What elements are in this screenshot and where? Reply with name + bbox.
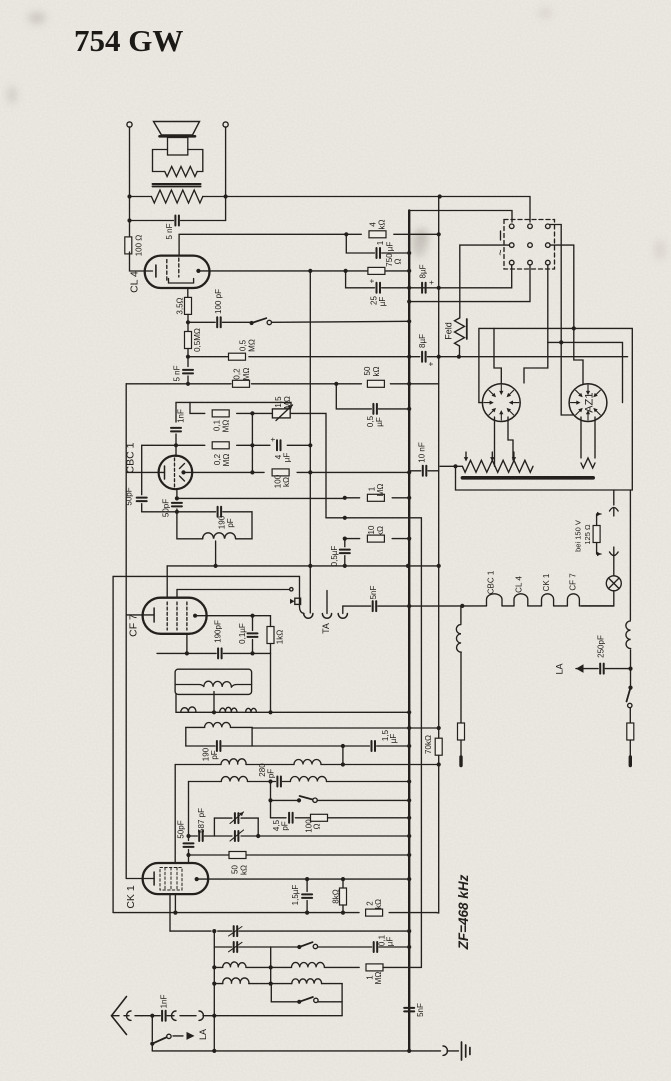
- tube CL4 cathode: [155, 265, 157, 277]
- wire: 100pF line y322.3: [188, 321, 215, 323]
- node: y746 link: [341, 744, 345, 748]
- node: y301.6 at bus: [407, 300, 411, 304]
- coil RF choke left: [460, 606, 462, 624]
- node: CL4 anode 25uF branch: [344, 269, 348, 273]
- barretter arrows: [491, 452, 493, 459]
- coil osc 2: [292, 962, 325, 967]
- wire: osc line y931.1: [170, 930, 211, 932]
- tube CBC1 diode plates: [180, 464, 185, 469]
- capacitor 5nF (top): [175, 216, 179, 226]
- wire: IF box left edge to row: [175, 694, 177, 712]
- wire: lamp to heater chain corner: [582, 591, 614, 606]
- capacitor 5nF (cathode): [183, 370, 193, 374]
- wire: coil line y983.6: [214, 983, 223, 985]
- LA switch (antenna): [151, 1016, 153, 1041]
- wire: CK1 bottom leads: [174, 894, 176, 913]
- coil ant 1: [223, 978, 249, 984]
- wire: after 1nF, link arcs: [167, 1015, 174, 1017]
- trimmer cap 2: [235, 831, 239, 841]
- svg-text:8µF: 8µF: [418, 264, 427, 278]
- svg-text:3,5Ω: 3,5Ω: [175, 297, 184, 314]
- wire: long B+ line y196.5 from speaker to mains plug: [130, 196, 152, 198]
- wire: 1MOhm right lead to TA column: [383, 966, 421, 968]
- wire: 0,5uF drop from y383.8: [336, 384, 371, 409]
- svg-text:bei 150 V: bei 150 V: [574, 520, 583, 552]
- capacitor (CK1 grid, vertical): [184, 843, 194, 847]
- node: y836 at bus: [407, 834, 411, 838]
- node: y781.5 at bus: [407, 779, 411, 783]
- tube AZ1 socket: [569, 384, 607, 422]
- node: y287.8 at bus2: [437, 286, 441, 290]
- resistor 50 kOhm (horizontal, y383.8): [367, 380, 384, 387]
- wire: 190pF line y653.4: [157, 652, 216, 654]
- speaker gap bar: [160, 135, 196, 138]
- node: y912.6 CK1 lead: [173, 911, 177, 915]
- wire: coil line y764.5: [175, 764, 221, 766]
- wire: line y565.9: [167, 565, 439, 567]
- svg-text:+: +: [426, 361, 435, 366]
- switch (antenna band): [297, 1000, 301, 1004]
- resistor 2kOhm: [366, 909, 383, 916]
- resistor 100 kOhm (anode load): [272, 469, 289, 476]
- wire: grid cap to tube: [188, 850, 190, 864]
- svg-text:754 GW: 754 GW: [74, 23, 183, 58]
- svg-text:CL 4: CL 4: [129, 271, 141, 293]
- capacitor 1,5uF (CK1): [302, 894, 312, 898]
- wire: 4 kOhm line y234.3 with drop to CL4 grid: [179, 234, 361, 255]
- trimmer cap (osc padder bottom): [234, 942, 238, 952]
- svg-text:0,1: 0,1: [212, 419, 221, 431]
- svg-text:MΩ: MΩ: [221, 420, 230, 433]
- ground symbol: [461, 1042, 463, 1060]
- tube CL4 grid1 (dashed): [166, 260, 168, 282]
- barretter heater zigzag: [462, 460, 533, 472]
- capacitor 4uF electrolytic: [277, 440, 281, 450]
- node: y565.9 coil tap: [214, 564, 218, 568]
- resistor 1 MOhm (osc): [366, 964, 383, 971]
- output transformer primary winding (zigzag): [165, 167, 197, 177]
- wire: box line y576.4 into TA hook1: [113, 576, 304, 613]
- svg-text:kΩ: kΩ: [282, 477, 291, 487]
- coil row y764.5 right: [294, 760, 321, 765]
- node: y912.6 8k: [341, 911, 345, 915]
- dial lamp: [606, 576, 621, 591]
- coil osc 1: [223, 962, 246, 967]
- svg-text:CL 4: CL 4: [514, 576, 523, 593]
- resistor 750 Ohm: [368, 267, 385, 274]
- wire: 10 kOhm line y538.6: [345, 538, 360, 540]
- node: y983.6 switch column: [269, 982, 273, 986]
- wire: right rail from box corner: [629, 490, 631, 620]
- wire: x270.5 drop to switch/4,5pF: [270, 782, 272, 818]
- svg-text:8µF: 8µF: [418, 334, 427, 348]
- svg-text:50pF: 50pF: [161, 499, 170, 517]
- node: CBC1 anode at screen bus: [308, 470, 312, 474]
- node: CL4 anode at HT bus: [407, 269, 411, 273]
- node: y565.9 0,5uF: [343, 564, 347, 568]
- svg-text:5nF: 5nF: [416, 1003, 425, 1017]
- node: CK1 anode at bus: [407, 877, 411, 881]
- tube CL4 anode bracket: [169, 279, 194, 284]
- node: y931.1 left column: [212, 929, 216, 933]
- svg-text:LA: LA: [555, 663, 565, 674]
- node: 50k junction: [186, 853, 190, 857]
- LA arrow (antenna): [173, 1035, 183, 1037]
- node: y983.6 left column: [212, 982, 216, 986]
- node: grid rail junction: [186, 834, 190, 838]
- wire: x573.8 to AZ1 top: [574, 328, 583, 384]
- wire: antenna line to x342.1: [214, 1015, 342, 1017]
- wire: hook3 lead to 5nF: [343, 606, 371, 613]
- wire: 190pF line y511.8: [142, 511, 216, 513]
- svg-text:0,1µF: 0,1µF: [238, 623, 247, 644]
- svg-text:CBC 1: CBC 1: [486, 570, 495, 594]
- lamp chain from box bottom: [613, 490, 615, 505]
- trimmer cap 1: [235, 813, 239, 823]
- switch (osc y947): [297, 945, 301, 949]
- potentiometer 1,5 MOhm: [272, 409, 290, 418]
- node: y356.7 at bus2: [437, 355, 441, 359]
- tube CK1 anode dot: [195, 877, 199, 881]
- wire: lamp lead: [613, 556, 615, 576]
- wire: line y356.7 to bus and Feld: [188, 356, 228, 358]
- node: CK1 anode 1,5uF: [305, 877, 309, 881]
- node: y565.9 bus2: [437, 564, 441, 568]
- wire: grid lead up: [175, 445, 177, 456]
- node: y497.8 at bus: [407, 496, 411, 500]
- node: switch line at bus: [407, 319, 411, 323]
- tube CF7 anode dot: [193, 614, 197, 618]
- svg-text:Ω: Ω: [312, 823, 321, 829]
- node: heater node at bus: [407, 604, 411, 608]
- node: grid line at screen bus: [308, 443, 312, 447]
- socket left pins: [484, 385, 519, 420]
- svg-text:587 pF: 587 pF: [197, 808, 206, 833]
- padder box top line y818.1: [214, 817, 232, 819]
- svg-text:5nF: 5nF: [369, 586, 378, 600]
- coil row y781.5 left: [221, 776, 247, 781]
- capacitor 0,5uF: [373, 404, 377, 414]
- wire: cathode to main AF line: [187, 376, 189, 384]
- node: 100pF junction: [186, 320, 190, 324]
- wire: CF7 grid2 lead up: [176, 590, 178, 598]
- resistor 0,2 MOhm (horizontal, y383.8): [233, 380, 250, 387]
- wire: grid line left stub: [142, 444, 176, 446]
- svg-text:CBC 1: CBC 1: [125, 442, 137, 473]
- wire: box bottom edge: [186, 745, 215, 747]
- tube CL4 anode dot: [196, 269, 200, 273]
- tube CK1 cathode: [153, 872, 155, 885]
- node: 250pF node: [628, 667, 632, 671]
- node: y383.8 at bus: [407, 382, 411, 386]
- wire: bottom earth line y1050.9: [152, 1050, 440, 1052]
- node: 280pF junction: [268, 779, 272, 783]
- svg-text:1nF: 1nF: [159, 995, 168, 1009]
- svg-text:50pF: 50pF: [124, 487, 133, 505]
- wire: pot right to AF takeoff: [290, 413, 326, 517]
- wire: CF7 bottom lead: [186, 634, 188, 654]
- earth link arc: [443, 1046, 448, 1055]
- svg-text:kΩ: kΩ: [374, 899, 383, 909]
- tube CL4 envelope: [145, 256, 210, 288]
- svg-text:100 pF: 100 pF: [214, 289, 223, 314]
- link hook top: [610, 508, 619, 512]
- wire: socket left bottom pins to barretter: [494, 417, 496, 466]
- coil L1 (CBC1 cathode coil): [177, 512, 252, 539]
- switch S1 lever: [252, 318, 267, 323]
- svg-text:kΩ: kΩ: [372, 366, 381, 376]
- wire: 1kOhm column down to detector row: [270, 653, 272, 712]
- node: y912.6 1,5uF: [305, 911, 309, 915]
- mains plug dashed box: [504, 220, 555, 270]
- wire: volume pot wiper line y402.4: [176, 402, 291, 422]
- tube CF7 envelope: [143, 598, 207, 634]
- tube CBC1 grid (dashed): [174, 458, 176, 487]
- svg-text:70kΩ: 70kΩ: [424, 735, 433, 754]
- node: y565.9 screen bus: [308, 564, 312, 568]
- node: anode dots: [250, 614, 254, 618]
- resistor 50 kOhm: [229, 852, 246, 859]
- node: y538.6 at bus: [407, 537, 411, 541]
- node: earth line left column: [212, 1049, 216, 1053]
- wire: coil tap to detector row: [213, 692, 215, 713]
- svg-text:+: +: [427, 280, 436, 285]
- node: earth line at bus: [407, 1049, 411, 1053]
- node: grid line AVC column: [250, 443, 254, 447]
- bus: second bus x438.7: [438, 197, 440, 739]
- wire: 100 Ohm line y817.8: [271, 817, 287, 819]
- coil row y781.5 right (4 loops): [290, 776, 326, 781]
- svg-text:pF: pF: [210, 750, 219, 759]
- rectifier socket (left): [482, 384, 520, 422]
- svg-text:1: 1: [376, 240, 385, 245]
- node: CL4 anode at screen bus: [308, 269, 312, 273]
- resistor 100 Ohm (osc): [311, 814, 328, 821]
- wire: socket left top feed: [494, 328, 501, 384]
- wire: AVC column x252.4: [251, 413, 253, 471]
- node: y947 at bus: [407, 945, 411, 949]
- bus: screen bus x310.3: [309, 271, 311, 613]
- coil L2 inside box: [175, 685, 204, 687]
- power unit box: [456, 328, 633, 490]
- resistor 0,5 MOhm (vertical): [185, 332, 192, 349]
- wire: left drop end: [460, 740, 462, 757]
- capacitor 5nF (TA): [373, 601, 377, 611]
- mains plug tick mark: [500, 231, 502, 240]
- wire: vertical x214.3 (947-1015.6): [213, 931, 215, 1016]
- svg-text:~: ~: [495, 249, 507, 255]
- node: y287.8 at HT bus: [407, 286, 411, 290]
- tube CBC1 envelope: [159, 456, 193, 490]
- heater CK1: [542, 594, 554, 606]
- svg-text:Feld: Feld: [444, 322, 454, 340]
- wire: 50pF to rail: [189, 835, 198, 837]
- wire: plug bottom-middle down to bus line y301.6: [409, 265, 530, 302]
- wire: CF7 anode line: [195, 615, 270, 617]
- svg-text:pF: pF: [266, 769, 275, 778]
- svg-text:10: 10: [367, 525, 376, 534]
- capacitor 4,5pF: [289, 813, 293, 823]
- svg-text:pF: pF: [280, 821, 289, 830]
- svg-text:4: 4: [369, 222, 378, 227]
- heater CF7: [567, 594, 579, 606]
- svg-text:50: 50: [363, 366, 372, 375]
- paper smudges: [7, 8, 666, 260]
- wire: left speaker lead down: [129, 127, 131, 239]
- wire: antenna lead with link: [112, 1015, 120, 1017]
- wire: coil tap down: [215, 541, 217, 566]
- node: junction y196.5 at bus2: [438, 194, 442, 198]
- svg-text:ZF=468 kHz: ZF=468 kHz: [456, 874, 471, 950]
- svg-text:MΩ: MΩ: [374, 972, 383, 985]
- svg-text:CK 1: CK 1: [125, 885, 137, 909]
- svg-text:0,5MΩ: 0,5MΩ: [193, 328, 202, 352]
- tube CK1 envelope: [143, 863, 209, 894]
- svg-text:250pF: 250pF: [596, 635, 605, 658]
- svg-text:µF: µF: [389, 734, 398, 744]
- node: AF line dot: [343, 516, 347, 520]
- wire: y836 line: [214, 835, 232, 837]
- wire: plug mid-left to Feld: [460, 245, 510, 318]
- wire: coil line y967.4: [214, 966, 222, 968]
- antenna symbol: [112, 997, 127, 1035]
- capacitor 100pF: [217, 317, 221, 327]
- wire: right speaker lead down to 5nF line: [225, 127, 227, 220]
- node: y383.8 0,5uF branch: [334, 382, 338, 386]
- wire: left rail x126.2 (CBC1/CF7/CK1 cathodes): [125, 384, 127, 879]
- wire: 8kOhm leads: [342, 879, 344, 888]
- resistor 125 Ohm plug-in: [593, 526, 600, 543]
- node: AF line junction: [186, 382, 190, 386]
- svg-text:TA: TA: [321, 623, 331, 634]
- node: 0,5uF at bus: [407, 407, 411, 411]
- node: y800.4 at bus: [407, 798, 411, 802]
- AZ1 filament zigzag: [581, 458, 595, 468]
- svg-text:5 nF: 5 nF: [165, 223, 174, 239]
- coil ant 2: [292, 979, 322, 984]
- oscillator box top y727.4 with coil: [186, 726, 205, 728]
- speaker terminal right: [223, 122, 228, 127]
- wire: plug mid-right jumper: [550, 245, 574, 328]
- wire: CL4 anode line y270.9 to 750 Ohm: [198, 270, 368, 272]
- wire: x214.3 to bottom: [213, 1016, 215, 1051]
- TA jack hooks: [304, 614, 313, 619]
- wire: AF line y517.8 down to oscillator: [326, 518, 421, 968]
- resistor 0,2 MOhm (grid leak): [212, 442, 229, 449]
- wire: cathode chain to 5nF: [187, 349, 189, 367]
- capacitor 8uF electrolytic (y287.8): [422, 283, 426, 293]
- wire: Feld to line y356.7: [459, 346, 461, 357]
- wire: rail x188.5 (row 781.5 to grid): [188, 782, 190, 841]
- capacitor 0,1uF (osc): [374, 942, 378, 952]
- mains plug pins row1: [509, 224, 514, 229]
- wire: 1kOhm leads: [270, 616, 272, 627]
- node: y817.8 at bus: [407, 816, 411, 820]
- tube CBC1 cathode: [164, 466, 166, 479]
- node: y497.8 branch: [343, 496, 347, 500]
- svg-text:µF: µF: [282, 453, 291, 463]
- node: 0,5MOhm line junction: [186, 355, 190, 359]
- capacitor 280pF: [277, 777, 281, 787]
- wire: switch to 0,1uF to bus: [318, 946, 372, 948]
- svg-text:kΩ: kΩ: [239, 865, 248, 875]
- capacitor 5nF (bus bottom): [404, 1008, 414, 1012]
- svg-text:10 nF: 10 nF: [417, 442, 426, 463]
- capacitor 8uF electrolytic (y356.7): [422, 352, 426, 362]
- svg-text:MΩ: MΩ: [222, 454, 231, 467]
- node: y836 padder box: [256, 834, 260, 838]
- wire: rail x175.2 (row to CK1): [174, 765, 176, 864]
- mains plug pins row2: [509, 243, 514, 248]
- tube CBC1 anode dot: [181, 470, 185, 474]
- wire: 250pF line: [605, 668, 630, 670]
- wire: detector row y712.3: [176, 711, 409, 713]
- speaker cone: [154, 122, 200, 136]
- IF transformer box (CF7): [175, 669, 252, 694]
- plug-in arrows: [597, 514, 601, 526]
- svg-text:1,5: 1,5: [274, 396, 283, 408]
- node: y565.9 HT bus: [406, 564, 410, 568]
- svg-text:MΩ: MΩ: [283, 396, 292, 409]
- svg-text:100 Ω: 100 Ω: [134, 235, 143, 257]
- wire: coil row y781.5: [189, 781, 222, 783]
- link hook bottom: [610, 552, 619, 556]
- mains plug pins row3: [509, 260, 514, 265]
- output transformer secondary winding (zigzag) on y196.5: [151, 190, 202, 203]
- svg-text:50pF: 50pF: [176, 820, 185, 838]
- wire: hook2 lead (open): [326, 591, 328, 614]
- switch S1 contact: [267, 320, 271, 324]
- svg-text:CF 7: CF 7: [568, 573, 577, 591]
- wire: 750 Ohm line y270.9 continues: [385, 270, 409, 272]
- tube CK1 grids (dashed box): [160, 868, 182, 891]
- band switch box (antenna): [271, 984, 297, 1002]
- output transformer primary loop right: [188, 150, 203, 172]
- svg-text:kΩ: kΩ: [376, 526, 385, 536]
- node: y498.4: [175, 496, 179, 500]
- capacitor 1,5uF (IF): [372, 741, 376, 751]
- wire: x561.2 to AZ1: [561, 342, 573, 415]
- wire: CK1 anode line y879.1: [197, 878, 410, 880]
- capacitor 190pF: [218, 507, 222, 517]
- capacitor 50pF (lower, under CBC1): [172, 503, 182, 507]
- wire: to 190pF line: [176, 509, 178, 512]
- node: junction y196.5 left: [127, 194, 131, 198]
- resistor 3,5 Ohm (vertical): [185, 297, 192, 314]
- svg-text:µF: µF: [375, 417, 384, 427]
- wire: 0,1 MOhm line y413.4: [190, 402, 205, 413]
- resistor 70 kOhm (in bus2): [435, 738, 442, 755]
- svg-text:1kΩ: 1kΩ: [275, 630, 284, 644]
- capacitor 190pF (CF7): [218, 648, 222, 658]
- node: y356.7 at HT bus: [407, 355, 411, 359]
- svg-text:5 nF: 5 nF: [172, 365, 181, 381]
- wire: line y589.5 to TA pad: [177, 589, 290, 591]
- resistor 1 MOhm: [367, 494, 384, 501]
- resistor 8kOhm (vertical): [340, 888, 347, 905]
- svg-text:MΩ: MΩ: [247, 339, 256, 352]
- wire: x342.9 link 746-764.5: [342, 746, 344, 765]
- resistor Feld (field coil zigzag, vertical): [455, 318, 465, 346]
- svg-text:+: +: [268, 437, 277, 442]
- wire: barretter feed line y466.3: [440, 465, 462, 467]
- speaker magnet: [168, 138, 188, 156]
- TA pad with arrow: [295, 598, 301, 604]
- node: y728 at HT bus: [407, 726, 411, 730]
- node: y931.1 at bus: [407, 929, 411, 933]
- wire: osc switch line y947: [214, 946, 231, 948]
- wire: plug bottom-right down: [547, 265, 549, 343]
